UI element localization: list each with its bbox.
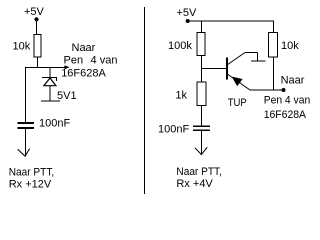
svg-text:100k: 100k [168,40,192,52]
resistor 10k (right) [269,33,278,57]
emitter arrowhead (points to base) [232,77,243,87]
wire rail to R 100k [201,21,203,33]
wire R100k to 1k (through base node) [201,56,203,83]
terminal dot Pen 4 (right) [282,88,286,92]
svg-text:100nF: 100nF [158,124,189,136]
wire left branch down to capacitor [25,68,27,124]
svg-text:5V1: 5V1 [57,90,77,102]
capacitor 100nF (right) top plate [193,125,210,127]
svg-text:+5V: +5V [177,7,198,19]
emitter output wire [250,89,284,91]
svg-text:1k: 1k [175,89,187,101]
svg-text:16F628A: 16F628A [264,109,307,121]
svg-text:4: 4 [91,55,97,67]
svg-text:Rx +12V: Rx +12V [9,179,52,191]
arrowhead down (left output) [18,149,30,157]
wire 10k to emitter wire [273,57,275,90]
svg-text:10k: 10k [281,40,299,52]
divider line between circuits [144,7,146,194]
resistor 100k [197,33,205,56]
transistor TUP base bar [226,57,228,79]
capacitor 100nF (left) top plate [17,122,34,124]
svg-text:Naar: Naar [72,42,96,54]
svg-text:10k: 10k [13,41,31,53]
svg-text:Pen 4 van: Pen 4 van [264,94,311,106]
base wire to transistor [202,68,228,70]
svg-text:Rx +4V: Rx +4V [176,178,213,190]
wire from R1 to node [37,57,39,68]
arrow to Pen 4 (left) [64,65,69,69]
resistor 10k (left) [34,35,41,58]
svg-text:Pen: Pen [64,55,84,67]
wire from +5V dot to R1 [36,19,38,34]
svg-text:TUP: TUP [228,97,247,109]
capacitor 100nF (left) bottom plate [17,127,34,129]
wire capacitor to output arrow (right) [200,131,202,154]
capacitor 100nF (right) bottom plate [193,129,210,131]
zener anode terminal bar [41,100,60,102]
zener anode lead [49,86,51,101]
transistor emitter diagonal [228,75,250,91]
terminal dot +5V (right) [186,19,190,23]
wire capacitor to output arrow (left) [25,129,27,156]
svg-text:Naar: Naar [281,75,305,87]
svg-text:100nF: 100nF [39,118,70,130]
collector lead horizontal [245,52,258,54]
svg-text:+5V: +5V [24,6,45,18]
collector lead vertical [257,53,259,62]
svg-text:Naar PTT,: Naar PTT, [9,167,55,179]
terminal dot +5V (left) [34,17,38,21]
transistor collector diagonal [227,53,245,66]
top rail wire [188,20,274,22]
arrowhead down (right output) [195,147,207,154]
node wire horizontal [25,67,65,69]
zener lead from node [49,68,51,79]
zener diode 5V1 cathode bar [42,78,57,82]
svg-text:Naar PTT,: Naar PTT, [176,166,222,178]
wire 1k to capacitor (right) [201,106,203,127]
wire rail to R 10k (right) [273,21,275,33]
zener diode 5V1 triangle [44,78,56,86]
svg-text:16F628A: 16F628A [61,68,106,80]
resistor 1k [197,82,206,106]
svg-text:van: van [100,55,118,67]
collector terminal bar [251,60,266,62]
